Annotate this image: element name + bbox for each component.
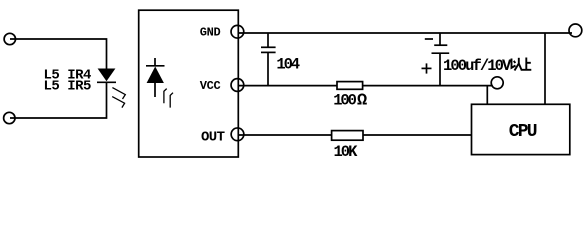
svg-text:100uf/10V: 100uf/10V — [443, 57, 512, 75]
svg-text:100: 100 — [333, 91, 356, 109]
svg-text:VCC: VCC — [200, 79, 221, 93]
svg-text:10K: 10K — [334, 143, 359, 161]
svg-text:GND: GND — [200, 26, 221, 40]
svg-text:Ω: Ω — [357, 92, 367, 111]
svg-text:OUT: OUT — [201, 129, 225, 145]
svg-text:L5 IR5: L5 IR5 — [44, 78, 92, 94]
svg-text:104: 104 — [276, 56, 299, 74]
svg-text:CPU: CPU — [509, 122, 537, 142]
